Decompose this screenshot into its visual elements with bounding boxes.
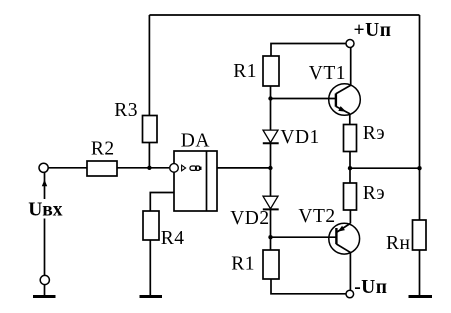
- resistor Re (bottom): [344, 183, 357, 210]
- svg-text:R1: R1: [233, 61, 257, 82]
- svg-text:Rэ: Rэ: [363, 183, 385, 204]
- wire input source upper: [44, 173, 46, 200]
- wire R3 to input junction: [148, 143, 150, 169]
- junction VT2 base node: [268, 235, 272, 239]
- svg-text:VD2: VD2: [230, 208, 269, 229]
- wire R4 to DA non-inverting input: [150, 193, 174, 212]
- svg-text:Rн: Rн: [386, 233, 410, 254]
- resistor R1 (bottom): [263, 250, 279, 279]
- wire R1 top lead to +Up rail: [271, 44, 346, 57]
- wire VT1 base: [271, 98, 336, 100]
- svg-text:R1: R1: [231, 253, 255, 274]
- wire VD1 to output node: [270, 143, 272, 196]
- svg-text:-Uп: -Uп: [354, 277, 387, 298]
- wire VT2 base: [271, 236, 337, 238]
- wire right rail to Rn: [419, 250, 421, 296]
- wire Re to output node: [349, 152, 351, 184]
- wire input terminal to R2: [48, 167, 87, 169]
- wire right rail: [419, 15, 421, 220]
- junction input node: [147, 166, 151, 170]
- wire DA output to diode junction: [217, 167, 270, 169]
- wire +Up drop to VT1 collector: [350, 48, 352, 86]
- ground input: [33, 295, 56, 298]
- resistor R1 (top): [263, 56, 279, 86]
- terminal input top: [39, 163, 48, 172]
- resistor R4: [143, 211, 159, 240]
- svg-text:R4: R4: [161, 228, 185, 249]
- terminal input bottom: [40, 275, 49, 284]
- svg-text:R2: R2: [91, 138, 115, 159]
- wire Re bottom to VT2 emitter: [349, 210, 351, 223]
- diode VD1: [263, 130, 279, 143]
- svg-text:R3: R3: [114, 100, 138, 121]
- svg-text:Uвх: Uвх: [28, 199, 63, 220]
- ground Rn: [409, 295, 433, 298]
- junction DA output node: [268, 166, 272, 170]
- svg-text:+Uп: +Uп: [354, 20, 392, 41]
- transistor VT2: [329, 223, 360, 290]
- resistor Re (top): [344, 125, 357, 152]
- diode VD2: [263, 196, 279, 209]
- terminal -Up: [346, 290, 354, 298]
- wire R4 to ground: [149, 240, 151, 296]
- resistor R2: [87, 161, 117, 176]
- transistor VT1: [329, 84, 361, 125]
- svg-text:Rэ: Rэ: [363, 123, 385, 144]
- wire top rail feedback: [149, 14, 419, 16]
- resistor R3: [143, 116, 158, 143]
- terminal +Up: [346, 40, 354, 48]
- junction VT1 base node: [268, 96, 272, 100]
- op-amp DA: [170, 151, 217, 211]
- wire output node to right rail: [350, 167, 420, 169]
- svg-text:VT2: VT2: [298, 206, 335, 227]
- wire R1 to VD1: [270, 86, 272, 130]
- junction emitter output node: [348, 166, 352, 170]
- wire input source lower: [44, 219, 46, 276]
- wire feedback drop to R3: [148, 15, 150, 116]
- svg-text:DA: DA: [181, 130, 210, 151]
- wire VD2 to VT2 base node: [270, 209, 272, 250]
- junction right rail output: [417, 166, 421, 170]
- wire R2 to DA inverting input: [117, 167, 169, 169]
- svg-text:VT1: VT1: [309, 63, 346, 84]
- svg-text:VD1: VD1: [280, 127, 319, 148]
- arrow input voltage direction: [42, 180, 47, 187]
- wire R1 bottom to -Up rail: [271, 279, 346, 294]
- resistor Rn: [413, 220, 427, 250]
- ground R4: [140, 295, 163, 298]
- wire bottom terminal to ground: [44, 285, 46, 296]
